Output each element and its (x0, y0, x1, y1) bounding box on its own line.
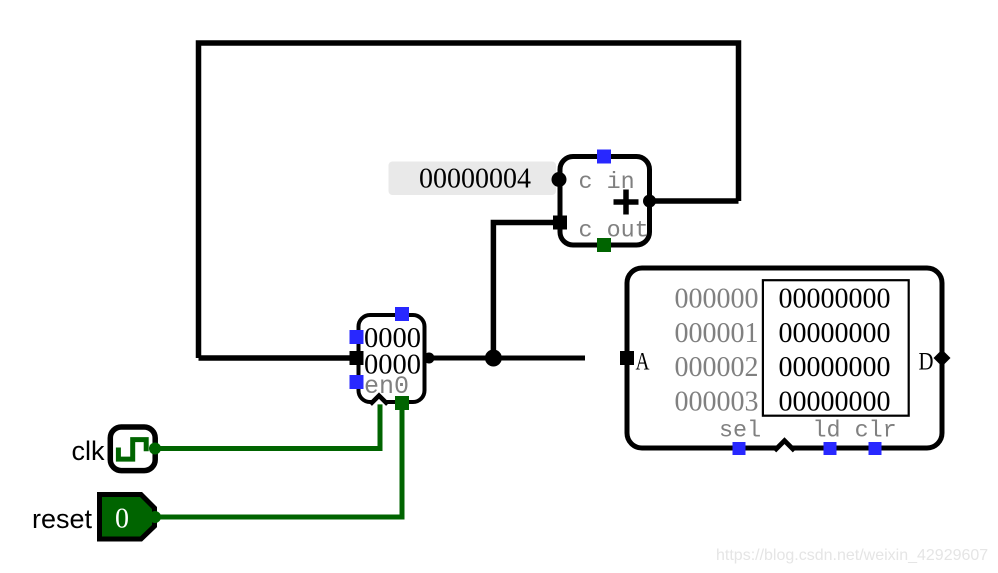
svg-text:00000000: 00000000 (779, 386, 891, 417)
svg-text:00000000: 00000000 (779, 284, 891, 315)
svg-text:A: A (636, 349, 650, 376)
input pin reset (32, 495, 161, 540)
node junction (485, 350, 502, 367)
svg-text:000000: 000000 (675, 284, 759, 315)
register R1 (350, 307, 435, 410)
wire adder output to right vertical (649, 198, 739, 204)
wire register output to east (426, 356, 585, 361)
svg-text:reset: reset (32, 504, 93, 534)
svg-text:c out: c out (579, 219, 649, 245)
wire junction up to adder c-out input (493, 223, 560, 359)
svg-text:sel: sel (719, 419, 761, 445)
svg-text:00000000: 00000000 (779, 352, 891, 383)
wire loop bottom into register input (199, 355, 358, 361)
wire clk to register clock (155, 402, 380, 449)
svg-text:00000000: 00000000 (779, 318, 891, 349)
clock input clk (72, 427, 162, 471)
adder U1 (552, 150, 657, 253)
svg-text:00000004: 00000004 (419, 164, 531, 195)
svg-text:000003: 000003 (675, 386, 759, 417)
svg-text:clk: clk (72, 436, 105, 466)
svg-text:0: 0 (115, 504, 129, 535)
svg-text:000001: 000001 (675, 318, 759, 349)
svg-text:000002: 000002 (675, 352, 759, 383)
svg-text:D: D (919, 349, 934, 376)
wire reset to register (155, 404, 402, 517)
RAM U2 (620, 268, 951, 455)
wire loop left+top+right (199, 43, 739, 358)
tooltip value label 00000004 (389, 162, 557, 196)
svg-text:https://blog.csdn.net/weixin_4: https://blog.csdn.net/weixin_42929607 (716, 547, 988, 564)
svg-text:ld clr: ld clr (813, 419, 897, 445)
